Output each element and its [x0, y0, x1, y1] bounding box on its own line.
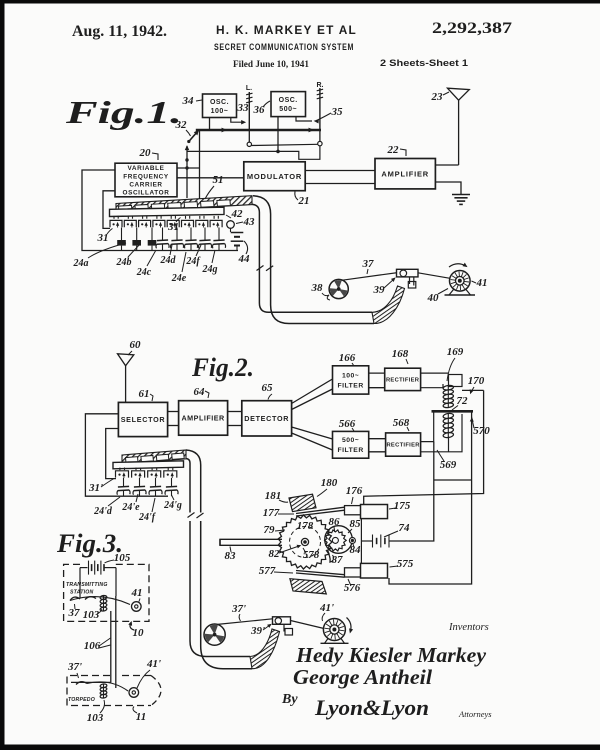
- tabs on tape: [119, 205, 133, 211]
- motor base 41': [325, 639, 329, 644]
- ratchet gear 178: [278, 515, 332, 569]
- svg-text:24'g: 24'g: [163, 500, 182, 511]
- svg-text:37: 37: [68, 607, 81, 619]
- svg-text:RECTIFIER: RECTIFIER: [386, 378, 420, 384]
- svg-text:181: 181: [265, 490, 282, 502]
- wire amplifier to antenna: [435, 164, 458, 166]
- svg-text:72: 72: [457, 395, 469, 407]
- svg-text:24f: 24f: [185, 256, 201, 267]
- tape carriage 39: [397, 269, 419, 277]
- svg-text:570: 570: [473, 425, 490, 437]
- svg-text:Inventors: Inventors: [448, 622, 489, 633]
- coil 569: [443, 413, 454, 419]
- border frame: [0, 0, 600, 4]
- svg-text:FILTER: FILTER: [337, 447, 363, 454]
- modulator 21: [244, 162, 305, 191]
- svg-text:103: 103: [83, 609, 100, 621]
- tape to roller 41-prime: [87, 682, 128, 691]
- belt carriage to motor 41': [291, 621, 325, 629]
- wire bus start down: [199, 131, 201, 203]
- svg-text:41: 41: [476, 277, 488, 289]
- svg-text:74: 74: [399, 522, 411, 534]
- svg-text:569: 569: [440, 459, 457, 471]
- svg-text:24b: 24b: [116, 257, 132, 268]
- svg-text:106: 106: [84, 640, 101, 652]
- svg-text:61: 61: [139, 388, 150, 400]
- svg-text:SELECTOR: SELECTOR: [121, 415, 166, 424]
- switch 32 blade: [189, 131, 198, 141]
- svg-text:166: 166: [339, 352, 356, 364]
- battery 74: [372, 535, 374, 548]
- svg-text:41': 41': [146, 658, 161, 670]
- battery 74 wire up: [389, 442, 434, 541]
- wires filter-rectifier top: [369, 372, 385, 374]
- svg-text:Attorneys: Attorneys: [458, 709, 492, 719]
- svg-text:37': 37': [67, 661, 82, 673]
- armature rod 576: [345, 568, 362, 577]
- coil 103 (torpedo): [100, 684, 107, 689]
- svg-text:100~: 100~: [342, 372, 359, 379]
- svg-text:65: 65: [262, 382, 274, 394]
- station inner wires: [79, 568, 81, 599]
- svg-text:RECTIFIER: RECTIFIER: [386, 443, 420, 449]
- motor wheel 41': [323, 619, 345, 641]
- tape curl bottom: [250, 629, 280, 669]
- svg-text:AMPLIFIER: AMPLIFIER: [381, 169, 429, 178]
- belt 37 (wheel to carriage): [342, 273, 398, 281]
- svg-text:39': 39': [250, 625, 265, 637]
- wires selector-amplifier: [168, 411, 179, 413]
- svg-text:24'e: 24'e: [121, 502, 140, 513]
- oscillator 36 (OSC. 500~): [271, 92, 306, 117]
- svg-text:Fig.2.: Fig.2.: [191, 353, 254, 382]
- tape carriage 39': [273, 617, 291, 625]
- switch bank (8 bracket cells): [113, 216, 115, 219]
- svg-text:64: 64: [194, 386, 206, 398]
- battery 105: [80, 567, 88, 569]
- svg-text:22: 22: [387, 144, 400, 156]
- wire osc100 down to bus: [209, 118, 211, 131]
- svg-text:39: 39: [373, 284, 386, 296]
- wire osc500 down to junction: [277, 117, 279, 152]
- terminal circle L: [247, 142, 251, 146]
- roller 41' (fig3): [129, 688, 139, 698]
- motor base: [449, 290, 454, 296]
- rotation arrow: [449, 264, 466, 267]
- leader 33 / wire osc100 to L: [231, 118, 242, 123]
- svg-text:OSCILLATOR: OSCILLATOR: [123, 190, 170, 197]
- svg-text:AMPLIFIER: AMPLIFIER: [181, 414, 225, 423]
- svg-text:37: 37: [362, 258, 375, 270]
- torpedo nose dashed arc: [151, 676, 161, 706]
- wire terminal L to R: [252, 144, 318, 145]
- leaders for 24a-g: [88, 243, 126, 258]
- svg-text:85: 85: [350, 518, 362, 530]
- ground symbol: [452, 194, 470, 196]
- svg-text:168: 168: [392, 348, 409, 360]
- pinion gear 86: [325, 530, 347, 551]
- wire 170 down to solenoid 175: [364, 390, 484, 504]
- dashed torpedo box 11: [67, 676, 151, 706]
- svg-text:Filed June 10, 1941: Filed June 10, 1941: [233, 60, 309, 70]
- coil 169: [443, 385, 454, 391]
- armature rod 176: [345, 506, 362, 515]
- svg-text:43: 43: [243, 216, 256, 228]
- svg-text:84: 84: [350, 544, 362, 556]
- channel bottom bend: [201, 646, 252, 669]
- svg-text:31': 31': [88, 482, 103, 494]
- wires amplifier-detector: [228, 411, 242, 413]
- svg-text:Aug. 11, 1942.: Aug. 11, 1942.: [72, 23, 167, 40]
- wire cells bus: [106, 478, 179, 480]
- svg-text:H. K. MARKEY ET AL: H. K. MARKEY ET AL: [216, 25, 357, 37]
- svg-text:STATION: STATION: [70, 590, 93, 596]
- capacitors fig2: [123, 478, 125, 487]
- svg-text:31: 31: [97, 232, 109, 244]
- antenna 23: [448, 88, 470, 100]
- wire L antenna to terminal: [248, 130, 250, 143]
- wire 570 down to solenoid 575: [389, 411, 472, 584]
- svg-text:TORPEDO: TORPEDO: [68, 697, 95, 703]
- bottom lever 577: [296, 571, 345, 575]
- svg-text:2,292,387: 2,292,387: [432, 20, 512, 37]
- terminal circle R: [318, 141, 322, 145]
- svg-text:DETECTOR: DETECTOR: [244, 414, 289, 423]
- wires selector left loop: [85, 414, 168, 496]
- channel resumes down: [200, 521, 202, 646]
- amplifier 64: [179, 401, 228, 436]
- svg-text:44: 44: [238, 253, 251, 265]
- record tape fig2 (hatched): [122, 450, 186, 464]
- coil 569 frame: [421, 413, 434, 442]
- wire rectifier168 to coil 169: [421, 372, 449, 374]
- wire switch down left: [186, 146, 188, 198]
- belt wheel to carriage: [218, 619, 273, 625]
- svg-text:32: 32: [175, 119, 188, 131]
- selector 61: [118, 402, 167, 436]
- svg-text:177: 177: [263, 507, 280, 519]
- antenna 60: [118, 354, 134, 366]
- wire osc500 right pin to R: [296, 117, 312, 121]
- wire lower bus to modulator: [187, 146, 320, 160]
- svg-text:MODULATOR: MODULATOR: [247, 172, 302, 181]
- wires filter-rectifier bottom: [369, 438, 386, 440]
- dashed station box 10: [64, 564, 149, 621]
- svg-text:169: 169: [447, 346, 464, 358]
- svg-text:TRANSMITTING: TRANSMITTING: [66, 582, 108, 588]
- svg-text:576: 576: [344, 582, 361, 594]
- svg-text:SECRET COMMUNICATION SYSTEM: SECRET COMMUNICATION SYSTEM: [214, 42, 354, 52]
- svg-text:566: 566: [339, 418, 356, 430]
- wire: thick selector bus: [196, 129, 321, 132]
- wire vfco left to switch row: [103, 191, 115, 229]
- svg-text:24'd: 24'd: [93, 506, 113, 517]
- contact bar fig2: [113, 461, 184, 469]
- rotation arrow 41': [347, 618, 352, 632]
- wire vfco to switch verticals: [177, 167, 200, 169]
- channel break marks: [257, 266, 264, 271]
- svg-text:24c: 24c: [136, 267, 152, 278]
- svg-text:82: 82: [269, 548, 281, 560]
- svg-text:Hedy Kiesler Markey: Hedy Kiesler Markey: [295, 643, 487, 667]
- crossover wire: [434, 479, 472, 481]
- svg-text:60: 60: [130, 339, 142, 351]
- svg-text:FILTER: FILTER: [337, 382, 363, 389]
- svg-text:36: 36: [253, 104, 266, 116]
- svg-text:L.: L.: [246, 85, 252, 92]
- svg-text:24'f: 24'f: [138, 512, 157, 523]
- svg-text:41': 41': [319, 602, 334, 614]
- wire amplifier to ground: [435, 182, 461, 194]
- rectifier 168: [385, 368, 421, 390]
- wire battery left to solenoid loop: [361, 540, 372, 542]
- svg-text:100~: 100~: [211, 108, 229, 115]
- terminal circle 43: [227, 221, 235, 229]
- svg-text:24g: 24g: [202, 264, 218, 275]
- svg-text:24e: 24e: [171, 273, 187, 284]
- svg-text:79: 79: [264, 524, 276, 536]
- switch bank fig2 (4 bracket cells): [119, 468, 121, 471]
- svg-text:34: 34: [182, 95, 195, 107]
- bottom pawl block (hatched): [290, 579, 326, 594]
- svg-text:575: 575: [397, 558, 414, 570]
- rectifier 568: [386, 433, 421, 456]
- roller 41 (fig3): [132, 602, 142, 612]
- svg-text:By: By: [281, 692, 298, 707]
- svg-text:103: 103: [87, 712, 104, 724]
- pie wheel 37': [204, 624, 225, 645]
- svg-text:175: 175: [394, 500, 411, 512]
- wire vfco left return loop: [82, 170, 238, 251]
- svg-text:83: 83: [225, 550, 237, 562]
- pawl 87: [326, 550, 334, 562]
- svg-text:OSC.: OSC.: [279, 97, 298, 104]
- svg-text:176: 176: [346, 485, 363, 497]
- contact humps 37-prime: [76, 682, 87, 685]
- svg-text:86: 86: [329, 516, 341, 528]
- svg-text:180: 180: [321, 477, 338, 489]
- svg-text:23: 23: [431, 91, 444, 103]
- svg-text:20: 20: [139, 147, 152, 159]
- channel break fig2: [188, 513, 195, 518]
- tape channel fig1 (down + right): [253, 196, 374, 324]
- svg-text:11: 11: [136, 711, 146, 723]
- motor wheel 41: [450, 271, 471, 292]
- svg-text:George Antheil: George Antheil: [293, 665, 432, 689]
- detector fan-out wires: [292, 379, 333, 404]
- svg-text:170: 170: [468, 375, 485, 387]
- svg-text:Fig.1.: Fig.1.: [65, 94, 182, 130]
- record tape 51 (hatched): [116, 196, 252, 213]
- solenoid 575: [361, 563, 388, 578]
- svg-text:35: 35: [331, 106, 344, 118]
- solenoid 175: [361, 505, 388, 519]
- condenser blocks and capacitors 24a-24g: [121, 228, 123, 241]
- filter 566 (500~): [333, 431, 369, 458]
- svg-text:42: 42: [231, 208, 244, 220]
- svg-text:FREQUENCY: FREQUENCY: [123, 173, 169, 180]
- svg-text:CARRIER: CARRIER: [129, 181, 162, 188]
- svg-text:178: 178: [297, 520, 314, 532]
- contact humps 37: [70, 597, 80, 600]
- svg-text:105: 105: [114, 552, 131, 564]
- tape 106 double line: [110, 611, 112, 682]
- tape curl to sprocket 39: [372, 286, 405, 324]
- svg-text:577: 577: [259, 565, 276, 577]
- ring 85: [325, 526, 353, 554]
- tape across to roller 41: [70, 597, 130, 605]
- coil 103 (station): [100, 595, 107, 600]
- svg-text:10: 10: [133, 627, 145, 639]
- svg-text:24a: 24a: [73, 258, 89, 269]
- pie wheel 38: [329, 279, 348, 298]
- filter 166 (100~): [333, 366, 369, 394]
- svg-text:VARIABLE: VARIABLE: [128, 165, 165, 172]
- amplifier 22: [375, 159, 435, 189]
- svg-text:OSC.: OSC.: [210, 99, 229, 106]
- svg-text:24d: 24d: [160, 255, 177, 266]
- wire vfco to modulator: [177, 177, 244, 179]
- svg-text:51: 51: [213, 174, 224, 186]
- armature bar 72: [432, 410, 474, 413]
- svg-text:37': 37': [231, 603, 246, 615]
- belt to motor 41: [418, 273, 450, 279]
- shaft 83: [220, 539, 282, 545]
- top lever 177 to armature 176: [296, 507, 345, 513]
- svg-text:33: 33: [237, 102, 250, 114]
- svg-text:2 Sheets-Sheet 1: 2 Sheets-Sheet 1: [380, 58, 469, 69]
- svg-text:500~: 500~: [342, 437, 359, 444]
- variable frequency carrier oscillator 20: [115, 163, 177, 197]
- svg-text:Lyon&Lyon: Lyon&Lyon: [314, 695, 429, 720]
- svg-text:R.: R.: [317, 82, 324, 89]
- svg-text:578: 578: [303, 549, 320, 561]
- svg-text:40: 40: [427, 292, 440, 304]
- wires modulator to amplifier: [305, 170, 375, 172]
- oscillator 34 (OSC. 100~): [203, 94, 237, 118]
- battery 42/44 plates: [231, 232, 244, 234]
- detector 65: [242, 401, 292, 436]
- torpedo inner wire: [71, 681, 111, 683]
- svg-text:21: 21: [298, 195, 310, 207]
- tape channel fig2 (down to bottom): [186, 450, 201, 513]
- contact bar: [110, 207, 225, 216]
- roller 84: [349, 538, 355, 544]
- wire R antenna to terminal: [319, 130, 321, 142]
- top pawl block 181 (hatched): [289, 494, 316, 511]
- svg-text:500~: 500~: [279, 106, 297, 113]
- svg-text:41: 41: [131, 587, 143, 599]
- svg-text:38: 38: [311, 282, 324, 294]
